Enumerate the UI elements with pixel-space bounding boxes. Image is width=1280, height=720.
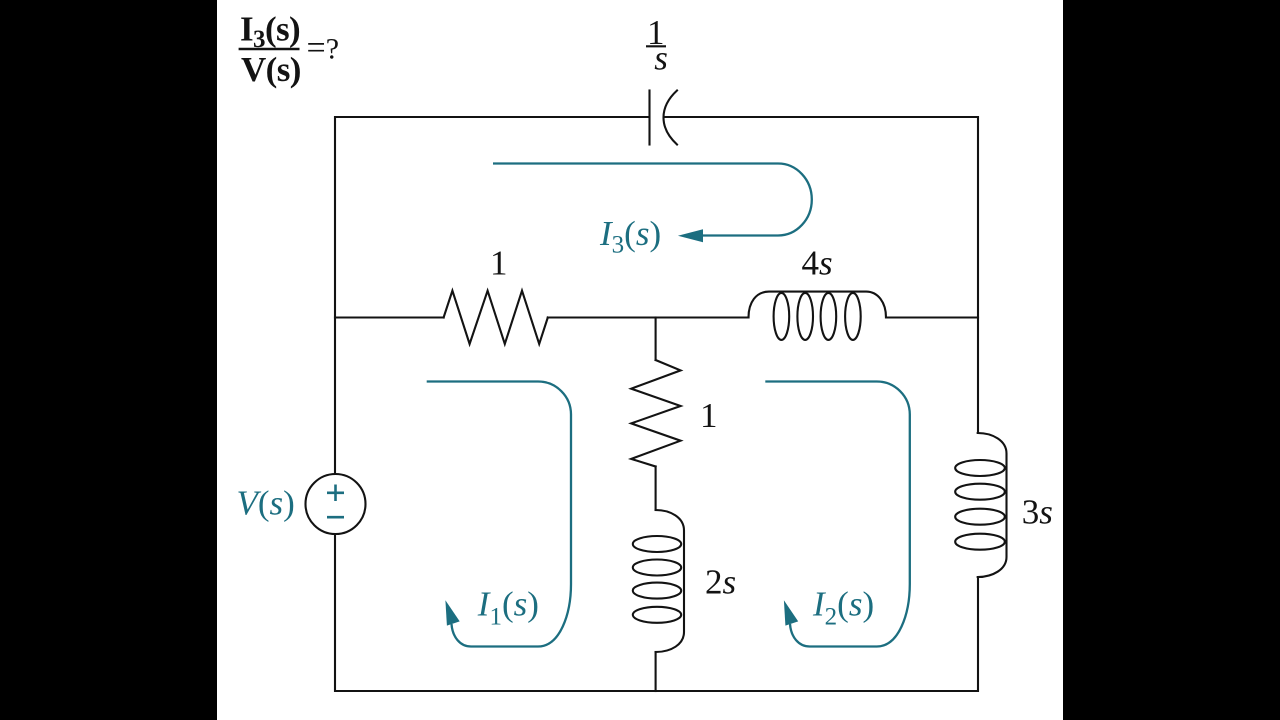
svg-text:I2(s): I2(s)	[812, 585, 874, 631]
svg-text:I3(s): I3(s)	[240, 10, 300, 54]
svg-text:3s: 3s	[1022, 492, 1053, 531]
svg-text:I3(s): I3(s)	[599, 214, 661, 259]
svg-text:1: 1	[700, 396, 718, 435]
svg-text:I1(s): I1(s)	[477, 585, 539, 631]
svg-text:V(s): V(s)	[237, 484, 295, 523]
svg-text:2s: 2s	[705, 563, 736, 602]
svg-text:s: s	[654, 39, 668, 78]
svg-text:=?: =?	[307, 30, 340, 67]
svg-text:1: 1	[490, 244, 508, 283]
svg-text:V(s): V(s)	[241, 50, 301, 89]
svg-text:4s: 4s	[802, 244, 833, 283]
